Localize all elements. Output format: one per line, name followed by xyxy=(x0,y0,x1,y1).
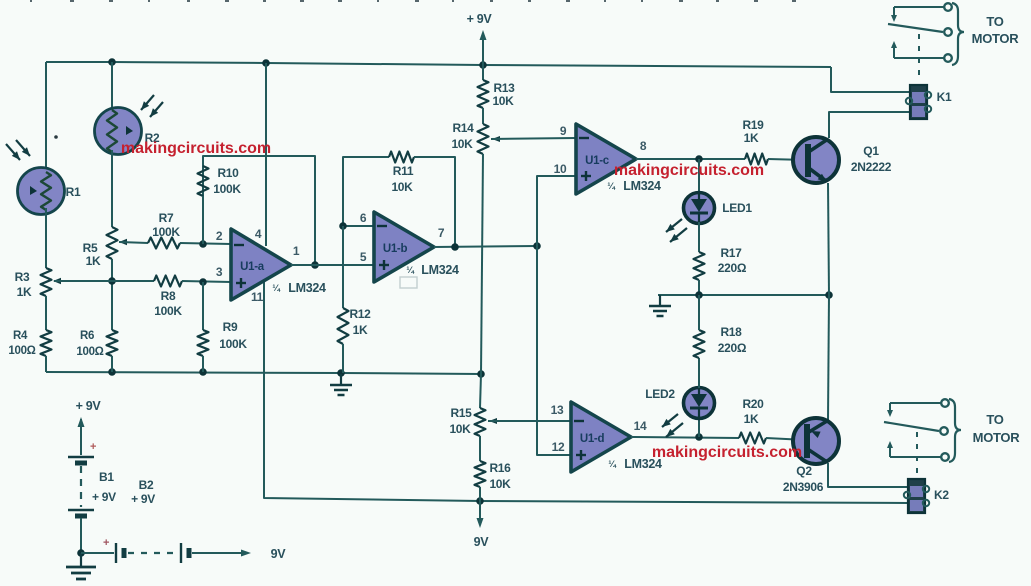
label R11 xyxy=(391,164,413,194)
wire pin6 node to R12 xyxy=(342,226,344,308)
svg-text:B2: B2 xyxy=(139,478,154,492)
svg-text:R16: R16 xyxy=(489,461,511,475)
svg-text:+ 9V: + 9V xyxy=(131,492,155,506)
relay coil K1 xyxy=(906,85,931,119)
label TO MOTOR top xyxy=(972,14,1020,46)
dashed link K2 xyxy=(916,432,918,478)
resistor R4 xyxy=(41,330,52,356)
potentiometer R5 xyxy=(107,227,128,259)
svg-text:LM324: LM324 xyxy=(623,179,661,193)
wire R19 to Q1 base xyxy=(768,159,807,160)
label TO MOTOR bottom xyxy=(973,412,1021,445)
svg-text:TO: TO xyxy=(986,412,1003,427)
photocell R2 xyxy=(95,108,142,155)
power +9V arrow battery xyxy=(78,417,85,455)
svg-text:R14: R14 xyxy=(452,121,474,135)
ground symbol mid xyxy=(330,374,352,395)
node junction pin3 xyxy=(199,278,207,286)
svg-text:makingcircuits.com: makingcircuits.com xyxy=(121,140,271,157)
pin label 10 xyxy=(554,162,567,176)
node junction R9 ground rail xyxy=(199,368,207,376)
wire pin6 loop left xyxy=(343,157,389,226)
wire U1-c output to R19 xyxy=(636,158,745,160)
label U1-d quarter LM324 xyxy=(608,457,662,471)
battery B1 cell1 xyxy=(68,441,96,463)
svg-text:R1: R1 xyxy=(66,185,81,199)
dashed battery B1 xyxy=(80,466,82,507)
node junction +9V center rail xyxy=(479,61,487,69)
wire R17 to emitter rail xyxy=(698,280,700,295)
svg-text:220Ω: 220Ω xyxy=(718,261,747,275)
svg-text:Q2: Q2 xyxy=(796,464,812,478)
pin label 4 xyxy=(255,227,262,241)
svg-text:U1-d: U1-d xyxy=(580,433,605,445)
node junction LED2 xyxy=(695,433,703,441)
LED LED2 xyxy=(684,388,715,419)
svg-text:13: 13 xyxy=(551,403,564,417)
resistor R9 xyxy=(198,330,209,356)
svg-text:+: + xyxy=(90,441,96,453)
light arrows from LED2 xyxy=(662,414,683,437)
wire emitter rail to Q2 xyxy=(828,295,829,420)
pin label 2 xyxy=(216,229,223,243)
wire U1-a pin4 from +9V rail xyxy=(265,63,267,246)
svg-text:R7: R7 xyxy=(159,211,174,225)
label R9 xyxy=(219,320,247,351)
wire U1-b output down to U1-d pin12 xyxy=(537,246,571,455)
svg-text:9V: 9V xyxy=(474,535,490,549)
label R13 xyxy=(492,81,515,108)
label B1 xyxy=(92,470,116,504)
wire battery junction to B2 xyxy=(81,552,114,554)
light arrows into R1 xyxy=(6,140,30,160)
wire LED1 top xyxy=(698,159,700,194)
svg-text:MOTOR: MOTOR xyxy=(973,430,1021,445)
node junction R12 ground rail xyxy=(337,369,345,377)
resistor R12 xyxy=(338,308,349,344)
svg-text:R4: R4 xyxy=(13,330,28,342)
label 9V battery out xyxy=(271,547,287,561)
op-amp U1-d xyxy=(571,402,631,472)
wire R11 right corner xyxy=(414,157,455,247)
pin label 3 xyxy=(216,265,223,279)
svg-text:+: + xyxy=(103,537,109,549)
label U1-c quarter LM324 xyxy=(607,179,661,193)
wire R3 wiper to R8 xyxy=(54,280,154,282)
wire LED1 to R17 xyxy=(698,222,700,252)
node junction Q1 emitter rail xyxy=(825,291,833,299)
node junction pin6 xyxy=(339,222,347,230)
resistor R13 xyxy=(478,80,489,108)
node junction R2 top rail xyxy=(108,58,116,66)
label R19 xyxy=(742,118,764,145)
svg-text:1K: 1K xyxy=(17,285,32,299)
light arrows from LED1 xyxy=(666,219,687,242)
battery B2 cell1 xyxy=(116,543,124,563)
svg-text:1: 1 xyxy=(293,244,300,258)
svg-text:2N3906: 2N3906 xyxy=(783,480,824,494)
svg-text:10K: 10K xyxy=(492,94,514,108)
svg-text:makingcircuits.com: makingcircuits.com xyxy=(614,162,764,179)
svg-text:+ 9V: + 9V xyxy=(467,12,493,26)
svg-text:R9: R9 xyxy=(223,320,238,334)
LED LED1 xyxy=(684,193,715,224)
svg-text:9V: 9V xyxy=(271,547,287,561)
label R16 xyxy=(489,461,511,491)
watermark 1 xyxy=(121,140,271,157)
svg-text:R8: R8 xyxy=(161,289,176,303)
wire R12 to ground rail xyxy=(342,344,344,373)
svg-text:11: 11 xyxy=(251,290,264,304)
svg-text:R17: R17 xyxy=(720,246,742,260)
svg-text:R12: R12 xyxy=(349,307,371,321)
wire R3 to R4 xyxy=(45,296,47,330)
resistor R10 xyxy=(198,166,209,196)
svg-text:100K: 100K xyxy=(219,337,247,351)
label R12 xyxy=(349,307,371,337)
scan artifacts top edge xyxy=(30,0,796,2)
wire Q1 collector to K1 xyxy=(829,112,909,138)
scan dot artifact xyxy=(54,135,58,139)
wire B2 to arrow xyxy=(192,550,251,557)
wire R14 wiper to U1-c pin9 xyxy=(491,138,576,139)
svg-text:4: 4 xyxy=(255,227,262,241)
label R10 xyxy=(213,166,241,196)
pin label 7 xyxy=(438,226,445,240)
node junction U1-a pin4 top rail xyxy=(262,59,270,67)
label U1-b quarter LM324 xyxy=(406,263,459,277)
svg-text:6: 6 xyxy=(360,211,367,225)
op-amp U1-c xyxy=(576,124,636,194)
wire +9V rail to R13 xyxy=(482,65,484,80)
label K1 xyxy=(937,90,952,104)
wire B1 to junction xyxy=(80,518,82,553)
wire U1-a pin11 down to bottom rail xyxy=(264,282,909,503)
wire R2 column upper xyxy=(111,62,113,110)
label R18 xyxy=(718,325,747,355)
op-amp U1-a xyxy=(231,229,291,300)
label R5 xyxy=(83,241,101,268)
wire R18 to emitter rail xyxy=(698,295,700,330)
battery B2 cell2 xyxy=(181,543,189,563)
svg-text:makingcircuits.com: makingcircuits.com xyxy=(652,444,802,461)
svg-text:TO: TO xyxy=(986,14,1003,29)
svg-text:LED2: LED2 xyxy=(645,387,675,401)
label R4 xyxy=(8,330,35,357)
node junction LED1 xyxy=(695,155,703,163)
potentiometer R15 xyxy=(475,408,498,436)
svg-text:10K: 10K xyxy=(451,137,473,151)
label R3 xyxy=(15,270,32,299)
wire R10 top corner xyxy=(203,156,315,265)
resistor R8 xyxy=(154,276,182,287)
svg-text:+ 9V: + 9V xyxy=(92,490,116,504)
svg-text:LED1: LED1 xyxy=(722,201,752,215)
svg-text:R10: R10 xyxy=(217,166,239,180)
label Q1 xyxy=(851,144,892,174)
dashed battery B2 xyxy=(128,552,178,554)
svg-text:Q1: Q1 xyxy=(863,144,879,158)
svg-text:220Ω: 220Ω xyxy=(718,341,747,355)
pin label 1 xyxy=(293,244,300,258)
resistor R7 xyxy=(148,238,180,249)
label Q2 xyxy=(783,464,824,494)
pin label 9 xyxy=(560,124,567,138)
node junction R5 pin3 wire xyxy=(108,277,116,285)
svg-text:3: 3 xyxy=(216,265,223,279)
pin label 5 xyxy=(360,250,367,264)
wire left column upper xyxy=(45,62,47,174)
node junction U1-b output feedback xyxy=(451,243,459,251)
small box artifact xyxy=(400,277,417,288)
pin label 14 xyxy=(634,419,647,433)
power +9V arrow top xyxy=(480,30,487,65)
node junction U1-b output branch xyxy=(533,242,541,250)
relay contacts K2 xyxy=(884,399,961,462)
label R7 xyxy=(152,211,180,239)
svg-text:100Ω: 100Ω xyxy=(8,345,35,357)
pin label 8 xyxy=(640,139,647,153)
potentiometer R3 xyxy=(41,268,62,296)
svg-text:10: 10 xyxy=(554,162,567,176)
svg-text:R15: R15 xyxy=(450,406,472,420)
label K2 xyxy=(934,488,949,502)
svg-text:K2: K2 xyxy=(934,488,949,502)
relay coil K2 xyxy=(904,479,929,513)
svg-text:5: 5 xyxy=(360,250,367,264)
svg-text:LM324: LM324 xyxy=(421,263,459,277)
wire LED2 bottom xyxy=(698,418,700,437)
resistor R16 xyxy=(475,461,486,487)
wire R16 to bottom rail xyxy=(479,487,481,501)
svg-text:R19: R19 xyxy=(742,118,764,132)
label B2 xyxy=(131,478,155,506)
svg-text:1K: 1K xyxy=(744,412,759,426)
wire R20 to Q2 base xyxy=(766,438,806,440)
svg-text:B1: B1 xyxy=(99,470,114,484)
svg-text:10K: 10K xyxy=(489,477,511,491)
label U1-a quarter LM324 xyxy=(272,281,326,295)
resistor R17 xyxy=(694,252,705,280)
svg-text:8: 8 xyxy=(640,139,647,153)
watermark 2 xyxy=(614,162,764,179)
label R14 xyxy=(451,121,474,151)
node junction R17 rail xyxy=(695,291,703,299)
wire U1-b output up to U1-c pin10 xyxy=(537,176,576,246)
wire pin3 node to R9 xyxy=(202,282,204,330)
label +9V top xyxy=(467,12,493,26)
svg-text:10K: 10K xyxy=(391,180,413,194)
svg-text:7: 7 xyxy=(438,226,445,240)
wire Q2 collector to K2 xyxy=(828,463,908,487)
pin label 13 xyxy=(551,403,564,417)
label 9V bottom xyxy=(474,535,490,549)
resistor R18 xyxy=(694,330,705,358)
wire R13 to R14 xyxy=(482,108,484,124)
wire R8 to U1-a pin3 xyxy=(182,281,231,282)
relay contacts K1 xyxy=(888,3,964,65)
wire U1-d output to R20 xyxy=(631,437,739,438)
node junction pin2 xyxy=(199,240,207,248)
node junction battery xyxy=(77,549,85,557)
svg-text:2N2222: 2N2222 xyxy=(851,160,892,174)
wire R5 to R6 xyxy=(111,259,113,330)
pin label 12 xyxy=(552,440,565,454)
svg-text:1K: 1K xyxy=(86,254,101,268)
svg-text:1K: 1K xyxy=(744,131,759,145)
potentiometer R14 xyxy=(478,124,501,154)
svg-text:U1-c: U1-c xyxy=(585,155,610,167)
label R17 xyxy=(718,246,747,275)
light arrows into R2 xyxy=(141,95,163,117)
svg-text:R11: R11 xyxy=(393,164,414,178)
ground symbol battery xyxy=(66,553,96,579)
label R20 xyxy=(742,397,764,426)
pin label 11 xyxy=(251,290,264,304)
node junction center rail ground rail xyxy=(477,370,485,378)
node junction R10 feedback output xyxy=(311,261,319,269)
svg-text:100K: 100K xyxy=(213,182,241,196)
svg-text:U1-b: U1-b xyxy=(383,243,408,255)
transistor Q2 xyxy=(793,418,839,464)
ground symbol emitter rail xyxy=(649,295,671,316)
svg-text:9: 9 xyxy=(560,124,567,138)
label R2 xyxy=(145,131,160,145)
wire Q1 emitter down xyxy=(828,183,829,295)
svg-text:R6: R6 xyxy=(80,330,94,342)
wire U1-b output xyxy=(434,246,537,247)
svg-text:R13: R13 xyxy=(493,81,515,95)
resistor R11 xyxy=(389,152,414,163)
node junction bottom rail center xyxy=(476,497,484,505)
wire U1-a output to U1-b pin5 xyxy=(291,264,374,266)
node junction R6 ground rail xyxy=(108,368,116,376)
resistor R6 xyxy=(107,330,118,356)
wire R7 to U1-a pin2 xyxy=(180,243,231,244)
wire +9V top rail xyxy=(46,62,831,67)
svg-text:R5: R5 xyxy=(83,241,98,255)
resistor R20 xyxy=(739,433,766,444)
svg-text:100K: 100K xyxy=(154,304,182,318)
wire emitter rail xyxy=(658,294,829,296)
svg-text:R20: R20 xyxy=(742,397,764,411)
wire R15 to R16 xyxy=(479,436,481,461)
label R8 xyxy=(154,289,182,318)
label LED2 xyxy=(645,387,675,401)
wire mid ground rail xyxy=(46,372,481,374)
svg-text:R18: R18 xyxy=(720,325,742,339)
wire R9 to ground rail xyxy=(202,356,204,372)
wire R1 to R3 xyxy=(45,208,47,268)
resistor R19 xyxy=(745,154,768,165)
label R1 xyxy=(66,185,81,199)
svg-text:LM324: LM324 xyxy=(288,281,326,295)
svg-text:10K: 10K xyxy=(449,422,471,436)
svg-text:100Ω: 100Ω xyxy=(76,346,103,358)
label +9V battery xyxy=(76,399,102,413)
label R6 xyxy=(76,330,103,358)
svg-text:1K: 1K xyxy=(353,323,368,337)
svg-text:MOTOR: MOTOR xyxy=(972,31,1020,46)
photocell R1 xyxy=(18,168,65,215)
wire R6 to ground rail xyxy=(111,356,113,372)
wire R4 to ground rail xyxy=(45,356,47,372)
svg-text:100K: 100K xyxy=(152,225,180,239)
wire LED2 to R18 xyxy=(698,358,700,388)
wire +9V rail to K1 coil xyxy=(831,67,909,92)
op-amp U1-b xyxy=(374,212,434,282)
battery B1 cell2 xyxy=(68,510,94,516)
label R15 xyxy=(449,406,472,436)
svg-text:2: 2 xyxy=(216,229,223,243)
svg-text:12: 12 xyxy=(552,440,565,454)
watermark 3 xyxy=(652,444,802,461)
pin label 6 xyxy=(360,211,367,225)
svg-text:K1: K1 xyxy=(937,90,952,104)
svg-text:U1-a: U1-a xyxy=(240,261,265,273)
svg-text:+ 9V: + 9V xyxy=(76,399,102,413)
svg-text:R3: R3 xyxy=(15,270,30,284)
wire center rail to R15 xyxy=(480,374,481,408)
label LED1 xyxy=(722,201,752,215)
dashed link K1 xyxy=(918,34,920,82)
wire R5 wiper to R7 xyxy=(119,242,148,243)
power 9V arrow bottom xyxy=(477,501,484,528)
wire center rail R14 to ground rail xyxy=(481,154,483,374)
transistor Q1 xyxy=(793,137,839,183)
wire R15 wiper to U1-d pin13 xyxy=(488,420,571,422)
wire R2 to R5 xyxy=(111,150,113,227)
svg-text:14: 14 xyxy=(634,419,647,433)
battery B2 plus tick xyxy=(103,537,109,549)
wire R10 bottom to pin2 node xyxy=(202,196,204,244)
